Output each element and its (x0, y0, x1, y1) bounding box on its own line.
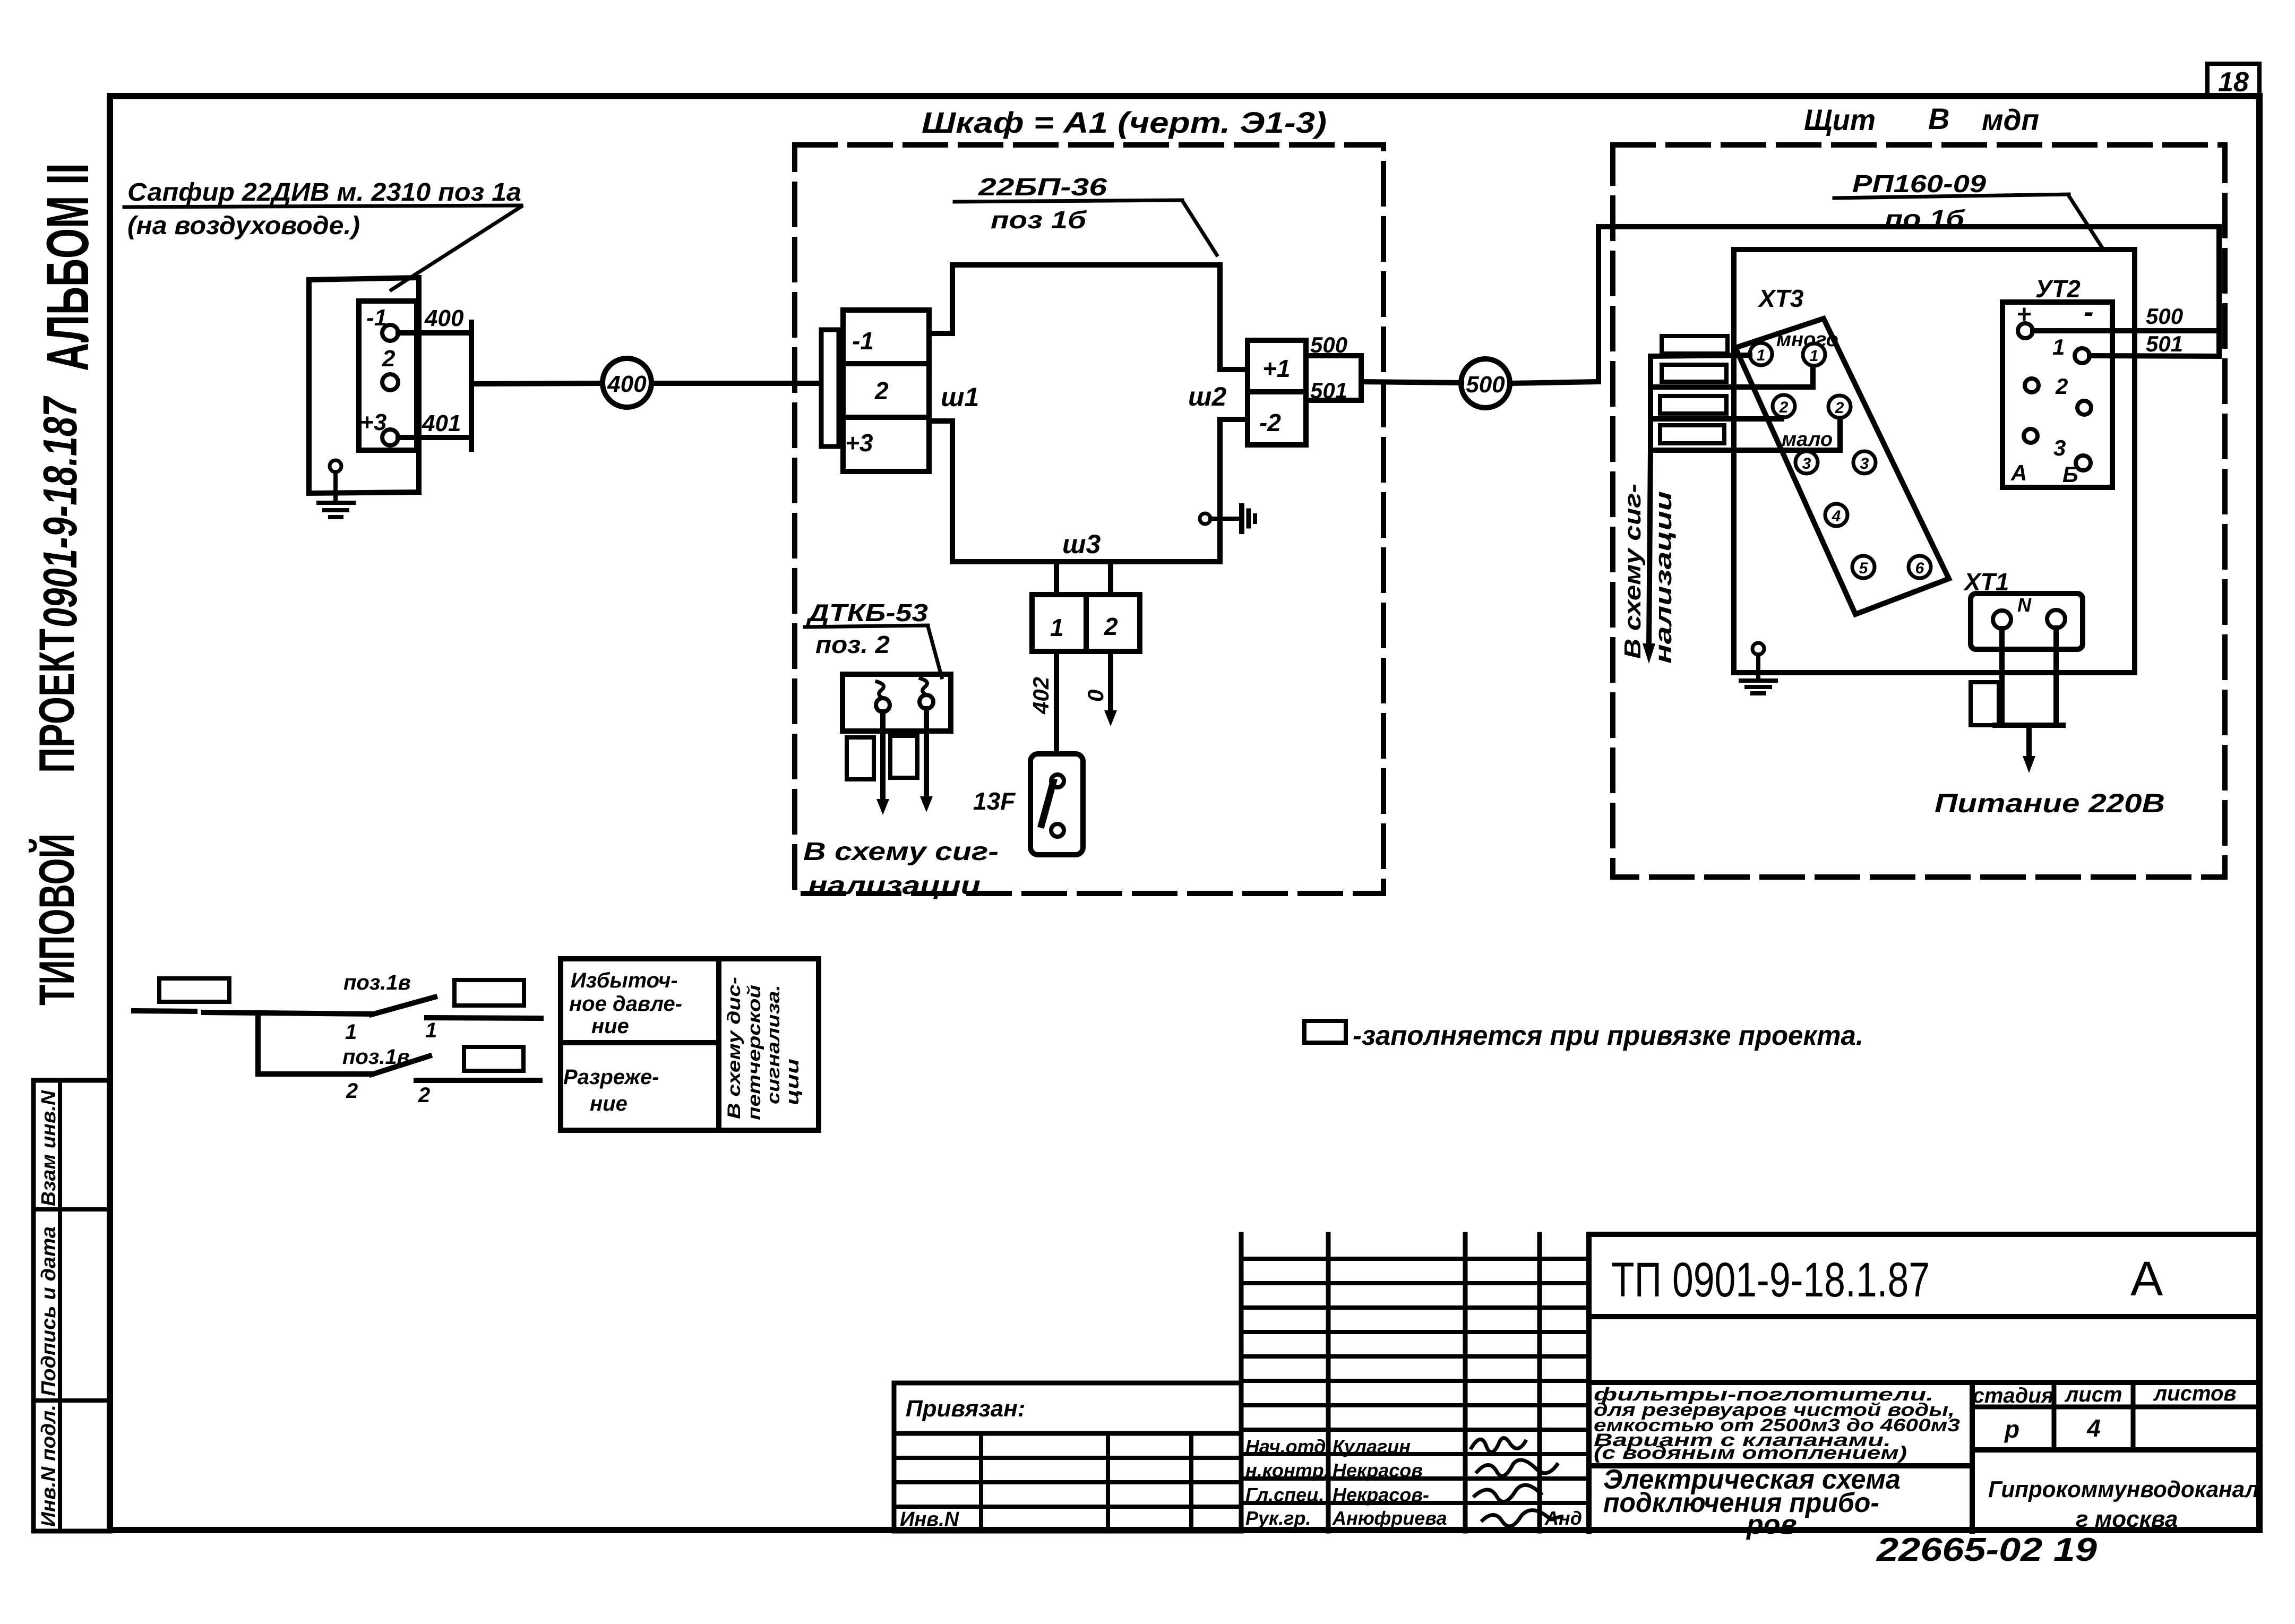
svg-text:листов: листов (2153, 1382, 2236, 1405)
underline РП160-09 (1834, 194, 2069, 198)
svg-text:ш2: ш2 (1188, 382, 1226, 411)
empty tag box right (890, 736, 917, 778)
signal tag boxes (1662, 336, 1727, 354)
underline ДТКБ-53 (805, 625, 928, 627)
wire to node bubble 400 (471, 383, 603, 384)
svg-text:РП160-09: РП160-09 (1852, 170, 1987, 197)
terminal 1 (382, 325, 398, 341)
svg-text:Б: Б (2062, 462, 2078, 487)
pin 3R (1853, 451, 1876, 474)
contact 1 common wire (134, 1011, 195, 1011)
label leader 22БП-36 (1182, 201, 1217, 255)
connector ш1 shell bracket (821, 330, 839, 446)
wire to pin 1R (1651, 366, 1813, 387)
svg-text:Разреже-: Разреже- (563, 1066, 659, 1089)
svg-text:0901-9-18.187: 0901-9-18.187 (34, 396, 87, 628)
ground symbol at transmitter (330, 460, 341, 472)
svg-text:400: 400 (607, 371, 647, 397)
wire 500 to УТ2 plus (2033, 328, 2219, 333)
contact 1 fixed wire (427, 1018, 541, 1018)
svg-text:р: р (2004, 1415, 2019, 1443)
svg-text:подключения прибо-: подключения прибо- (1603, 1488, 1879, 1518)
connector ш1 box (843, 310, 929, 471)
svg-text:N: N (2017, 594, 2032, 616)
svg-text:ние: ние (590, 1092, 628, 1115)
thermostat contact 2 (919, 695, 933, 709)
thermostat pigtail 2 (921, 678, 927, 695)
wire to pin 2R (1651, 418, 1840, 450)
wire from contact 1 down (880, 712, 886, 803)
ХТ1 terminal N (2047, 610, 2065, 628)
svg-text:22БП-36: 22БП-36 (978, 173, 1107, 201)
left margin stamp column (33, 1080, 110, 1531)
pin 6 (1909, 556, 1931, 578)
svg-text:0: 0 (1083, 690, 1108, 702)
pin 5 (1852, 556, 1875, 578)
legend note box (1304, 1021, 1346, 1043)
connector ш2 box (1248, 340, 1306, 445)
panel Щит dashed boundary (1613, 145, 2225, 877)
svg-text:Привязан:: Привязан: (906, 1396, 1025, 1422)
svg-text:-1: -1 (366, 305, 387, 331)
wire 500 from ш2 (1306, 353, 1361, 358)
svg-text:-заполняется при привязке п: -заполняется при привязке проекта. (1353, 1020, 1863, 1051)
tag box contact1 left (159, 978, 229, 1002)
terminal block ХТ1 (1971, 594, 2083, 649)
wire from bubble 500 into panel (1510, 382, 1598, 383)
svg-text:500: 500 (1310, 332, 1347, 357)
svg-text:1: 1 (425, 1019, 437, 1042)
svg-text:Инв.N: Инв.N (900, 1508, 960, 1531)
svg-text:-1: -1 (852, 327, 874, 355)
svg-text:поз.1в: поз.1в (343, 971, 411, 994)
wire 0 (1108, 651, 1113, 714)
svg-text:(на воздуховоде.): (на воздуховоде.) (127, 212, 360, 240)
title block main box (1586, 1234, 1592, 1531)
svg-text:А: А (2130, 1252, 2163, 1306)
svg-text:В: В (1928, 102, 1949, 135)
ХТ1 terminal L (1993, 611, 2011, 629)
svg-text:Некрасов: Некрасов (1333, 1459, 1423, 1481)
svg-text:ДТКБ-53: ДТКБ-53 (805, 599, 928, 626)
svg-text:сигнализа.: сигнализа. (763, 985, 784, 1104)
УТ2 terminal mid (2077, 401, 2091, 415)
power tag box (1971, 682, 1999, 725)
svg-text:1: 1 (2052, 334, 2065, 359)
page number box 18 (2207, 64, 2259, 97)
wire 501 to УТ2 pin1 (2090, 356, 2219, 356)
svg-text:петчерской: петчерской (744, 985, 764, 1120)
svg-text:+3: +3 (360, 409, 386, 435)
transmitter terminal strip (359, 301, 417, 450)
svg-text:ПРОЕКТ: ПРОЕКТ (29, 629, 84, 773)
thermostat contact 1 (876, 698, 890, 712)
branch to contact 2 (258, 1013, 372, 1074)
terminal 2 (382, 374, 398, 390)
wire 501 from ш2 (1306, 398, 1361, 403)
svg-text:много: много (1776, 329, 1838, 351)
svg-text:УТ2: УТ2 (2035, 275, 2081, 303)
wire 401 from terminal 3 (398, 435, 471, 440)
svg-text:2: 2 (874, 377, 889, 405)
transmitter Сапфир 22ДИВ outer body (309, 278, 419, 493)
wire to pin 2L (1651, 418, 1782, 419)
svg-text:Избыточ-: Избыточ- (571, 969, 678, 992)
УТ2 terminal plus (2018, 323, 2033, 338)
svg-text:ТИПОВОЙ: ТИПОВОЙ (28, 834, 84, 1006)
power unit body outline lower (929, 419, 1248, 562)
svg-text:4: 4 (2086, 1414, 2101, 1442)
svg-text:ров: ров (1746, 1509, 1797, 1540)
svg-text:2: 2 (382, 346, 396, 372)
svg-text:нализации: нализации (1651, 491, 1677, 664)
node bubble 400 (603, 358, 651, 407)
svg-text:Сапфир 22ДИВ м. 2310 поз 1а: Сапфир 22ДИВ м. 2310 поз 1а (127, 178, 521, 207)
svg-text:+1: +1 (1262, 355, 1290, 382)
svg-text:ш1: ш1 (941, 382, 979, 412)
underline Сапфир label (124, 205, 521, 207)
svg-text:2: 2 (1835, 399, 1844, 417)
leader line to label Сапфир (391, 207, 521, 290)
svg-text:г москва: г москва (2076, 1506, 2178, 1532)
ш2 cable bracket (1359, 356, 1364, 400)
УТ2 terminal Б (2076, 456, 2091, 470)
destination table (561, 959, 819, 1130)
svg-text:ХТ1: ХТ1 (1963, 568, 2009, 596)
cabinet Шкаф=А1 dashed boundary (795, 145, 1383, 893)
svg-text:В схему сиг-: В схему сиг- (803, 838, 999, 866)
svg-text:501: 501 (1310, 378, 1347, 403)
contact 2 fixed wire (416, 1078, 540, 1083)
svg-text:по 1б: по 1б (1885, 205, 1965, 233)
svg-text:501: 501 (2146, 331, 2183, 356)
pin 1R (1803, 343, 1825, 366)
svg-text:Некрасов-: Некрасов- (1333, 1484, 1429, 1506)
pin 2L (1773, 395, 1795, 417)
svg-text:Нач.отд.: Нач.отд. (1245, 1436, 1331, 1457)
svg-text:2: 2 (346, 1079, 358, 1103)
svg-text:Взам инв.N: Взам инв.N (38, 1089, 60, 1206)
switch 13F (1030, 754, 1083, 855)
svg-text:Шкаф = А1 (черт. Э1-3): Шкаф = А1 (черт. Э1-3) (922, 106, 1327, 139)
svg-text:401: 401 (422, 410, 461, 436)
label leader РП160-09 (2069, 196, 2103, 250)
svg-text:22665-02 19: 22665-02 19 (1876, 1532, 2098, 1568)
svg-text:2: 2 (2055, 374, 2068, 399)
svg-text:ции: ции (783, 1059, 803, 1105)
svg-text:400: 400 (424, 305, 464, 331)
ground in РП panel (1752, 643, 1764, 655)
svg-text:402: 402 (1028, 677, 1053, 715)
svg-text:Рук.гр.: Рук.гр. (1245, 1507, 1311, 1529)
svg-text:поз 1б: поз 1б (991, 206, 1087, 234)
node bubble 500 (1461, 359, 1510, 408)
svg-text:4: 4 (1832, 508, 1841, 525)
svg-text:мало: мало (1782, 428, 1833, 451)
svg-text:2: 2 (418, 1084, 430, 1107)
svg-text:ние: ние (591, 1015, 629, 1038)
svg-text:2: 2 (1779, 399, 1789, 416)
svg-text:1: 1 (1050, 614, 1064, 641)
power arrow down (2026, 725, 2032, 759)
terminal assembly УТ2 (2002, 302, 2112, 487)
wire 402 (1054, 651, 1059, 754)
wire run 500/501 over panel (1598, 227, 2219, 382)
УТ2 terminal 2 (2025, 379, 2039, 392)
svg-text:А: А (2010, 460, 2027, 485)
connector ш3 stubs (1054, 562, 1059, 595)
svg-text:Инв.N подл.: Инв.N подл. (38, 1405, 60, 1527)
power unit body outline upper (929, 265, 1248, 370)
svg-text:3: 3 (1860, 455, 1869, 472)
svg-text:13F: 13F (973, 787, 1016, 815)
chassis ground at power unit (1200, 513, 1210, 524)
svg-text:Питание 220В: Питание 220В (1935, 788, 2165, 818)
svg-text:-2: -2 (1259, 409, 1281, 436)
svg-text:(с водяным отоплением): (с водяным отоплением) (1594, 1443, 1907, 1463)
wire 400 from terminal 1 (398, 330, 471, 336)
УТ2 terminal 3 (2024, 429, 2038, 443)
svg-text:18: 18 (2218, 67, 2249, 98)
svg-text:+3: +3 (845, 429, 873, 457)
contact 1 blade (372, 997, 435, 1015)
svg-text:АЛЬБОМ II: АЛЬБОМ II (35, 163, 101, 371)
svg-text:ТП 0901-9-18.1.87: ТП 0901-9-18.1.87 (1611, 1253, 1930, 1307)
pin 3L (1795, 451, 1818, 474)
revision table (1239, 1234, 1244, 1531)
УТ2 terminal 1 (2075, 348, 2090, 363)
svg-text:В схему сиг-: В схему сиг- (1620, 484, 1646, 659)
wire to node bubble 500 (1361, 382, 1462, 383)
power wires 220V (1999, 629, 2005, 725)
wire from bubble 400 to connector ш1 (651, 381, 820, 386)
pin 2R (1828, 396, 1851, 418)
svg-text:ш3: ш3 (1062, 529, 1101, 559)
svg-text:3: 3 (1802, 455, 1811, 472)
svg-text:Подпись и дата: Подпись и дата (38, 1226, 60, 1396)
svg-text:ХТ3: ХТ3 (1757, 285, 1804, 312)
wire to pin 1L (1651, 355, 1750, 356)
signal bus down with arrow (1649, 357, 1651, 647)
svg-text:500: 500 (1466, 372, 1505, 398)
label leader ДТКБ-53 (928, 626, 942, 677)
recorder РП160-09 panel body (1734, 250, 2135, 673)
tag box contact1 right (454, 980, 524, 1006)
svg-text:Гипрокоммунводоканал: Гипрокоммунводоканал (1988, 1476, 2259, 1502)
cable bracket vertical (469, 322, 474, 449)
svg-text:Кулагин: Кулагин (1333, 1436, 1411, 1457)
svg-text:поз. 2: поз. 2 (815, 631, 890, 658)
svg-text:6: 6 (1915, 560, 1924, 577)
svg-text:нализации: нализации (808, 872, 981, 900)
empty tag box left (847, 737, 874, 779)
underline 22БП-36 (955, 200, 1182, 202)
switch blade (1042, 782, 1053, 824)
svg-text:2: 2 (1104, 613, 1118, 640)
arrow of wire 0 (1104, 710, 1117, 726)
svg-text:500: 500 (2146, 304, 2183, 329)
terminal assembly ХТ3 (1735, 319, 1949, 614)
tag box contact2 right (464, 1047, 523, 1071)
terminal 3 (382, 429, 398, 445)
signature squiggles (1471, 1438, 1563, 1526)
contact 2 blade (372, 1056, 429, 1075)
binding table Привязан (894, 1383, 1241, 1531)
svg-text:1: 1 (1757, 347, 1766, 364)
svg-text:1: 1 (1810, 347, 1819, 365)
thermostat pigtail 1 (877, 682, 884, 698)
svg-text:Анюфриева: Анюфриева (1332, 1507, 1447, 1529)
svg-text:3: 3 (2053, 435, 2066, 460)
svg-text:лист: лист (2064, 1383, 2122, 1406)
pin 4 (1825, 504, 1847, 526)
pin 1L (1750, 343, 1772, 365)
svg-text:1: 1 (345, 1020, 357, 1044)
svg-text:В схему дис-: В схему дис- (724, 977, 744, 1119)
svg-text:поз.1в: поз.1в (342, 1045, 410, 1069)
thermostat body (843, 674, 951, 731)
svg-text:+: + (2016, 300, 2031, 329)
svg-text:Щит: Щит (1804, 103, 1876, 136)
wire from contact 2 down (924, 709, 929, 800)
svg-text:5: 5 (1859, 560, 1869, 577)
connector ш3 box (1032, 595, 1140, 651)
svg-text:н.контр.: н.контр. (1245, 1459, 1329, 1481)
svg-text:ное давле-: ное давле- (569, 992, 682, 1016)
svg-text:-: - (2084, 295, 2094, 328)
svg-text:стадия: стадия (1973, 1384, 2054, 1407)
svg-text:мдп: мдп (1982, 103, 2039, 136)
svg-text:Гл.спец.: Гл.спец. (1245, 1484, 1324, 1506)
